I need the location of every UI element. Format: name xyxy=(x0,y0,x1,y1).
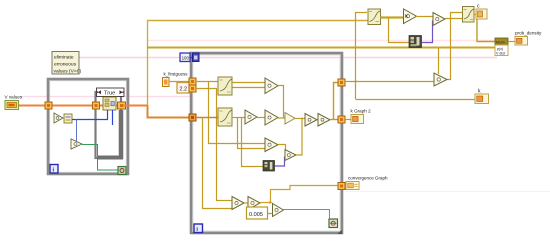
tunnel on case/loop right border xyxy=(118,102,126,109)
violet wire mean to divide xyxy=(275,157,285,167)
V wire into formulaB xyxy=(196,117,218,119)
wire formula2 to c xyxy=(474,14,477,16)
top right formula node 1 xyxy=(368,9,381,25)
triangle bottom sub xyxy=(232,197,244,210)
comment label eliminate erroneous values xyxy=(52,52,81,75)
svg-text:2.2: 2.2 xyxy=(180,87,188,93)
wire V values to left loop xyxy=(17,105,48,107)
svg-text:100: 100 xyxy=(182,56,190,61)
svg-text:convergence Graph: convergence Graph xyxy=(348,176,388,181)
array size node xyxy=(64,114,72,123)
svg-text:values (V>0): values (V>0) xyxy=(54,69,82,75)
blue link xyxy=(190,57,193,59)
svg-text:erroneous: erroneous xyxy=(54,62,77,68)
k_firstguess control xyxy=(163,72,189,87)
tunnel V on big loop left border xyxy=(189,114,196,121)
tunnel k1 on big loop left border xyxy=(189,78,196,85)
wire 0.005 to less triangle xyxy=(268,213,274,215)
wire xyxy=(416,16,433,18)
wire pdf to prob_density xyxy=(508,41,515,43)
thick out of formula1 xyxy=(381,16,405,18)
constant 2.2 xyxy=(177,83,190,94)
iteration terminal left loop xyxy=(50,165,58,174)
V vertical feeder down xyxy=(202,117,204,208)
wire to convergence tunnel xyxy=(271,186,339,203)
feeder from long wire down to triangle3 xyxy=(438,48,440,74)
wire exit over border xyxy=(123,105,130,107)
tunnel k graph xyxy=(338,116,345,123)
svg-text:prob_density: prob_density xyxy=(515,31,542,36)
blue wire array size to node xyxy=(72,110,108,120)
V values control xyxy=(5,95,23,110)
big while loop xyxy=(191,53,342,233)
left while loop xyxy=(48,79,128,174)
blue stub in case xyxy=(112,110,114,125)
svg-text:eliminate: eliminate xyxy=(54,55,74,61)
riser from k junction to icon1 input xyxy=(356,12,368,14)
wire long y48 to PDF block xyxy=(147,47,496,49)
k2 vertical feeder down xyxy=(216,88,218,200)
wire through left loop xyxy=(52,105,148,107)
triangle less-than xyxy=(273,204,284,217)
comparison triangle left xyxy=(54,113,63,123)
wire xyxy=(278,117,285,119)
compare triangle bottom xyxy=(71,139,82,149)
wire out with junction xyxy=(260,202,272,204)
svg-text:k Graph 2: k Graph 2 xyxy=(351,109,372,114)
violet wire to triangle2 xyxy=(422,21,433,43)
indicator k Graph 2 xyxy=(351,109,372,124)
dark node mean top xyxy=(409,36,422,48)
tunnel k out xyxy=(338,79,345,86)
triangle div k xyxy=(434,73,447,86)
case selector label True xyxy=(97,88,125,97)
wire formulaA second out xyxy=(232,87,265,89)
normal pdf block xyxy=(495,38,508,56)
triangle row2 d xyxy=(318,114,330,127)
triangle bottom abs xyxy=(248,197,260,210)
wire tunnel to k graph 2 xyxy=(345,119,351,121)
N constant blue box xyxy=(180,53,190,62)
tunnel on case left border xyxy=(93,102,100,109)
case structure (inner) xyxy=(96,92,124,159)
wire formulaA out xyxy=(232,82,265,84)
triangle row2 small xyxy=(285,113,295,125)
wire k_firstguess to tunnel xyxy=(169,81,193,83)
blue drop to compare triangle xyxy=(76,119,78,141)
iteration terminal big loop xyxy=(194,224,203,233)
wire formulaB out xyxy=(232,117,245,119)
wire V down-leg into big loop xyxy=(148,105,194,118)
wire k2 to feeder xyxy=(196,88,217,90)
feeder to subtract triangle mid xyxy=(237,117,239,148)
svg-text:V dist: V dist xyxy=(496,52,505,56)
triangle mult row1 xyxy=(265,78,278,94)
indicator k xyxy=(475,89,489,104)
triangle row2 a xyxy=(245,110,257,124)
k1 vertical feeder down xyxy=(208,81,210,143)
triangle subtract mid xyxy=(265,138,278,152)
N terminal on loop xyxy=(193,53,200,62)
svg-text:0.005: 0.005 xyxy=(249,212,263,218)
wire into t4 xyxy=(216,200,232,202)
wire row1 out down to row2 xyxy=(278,86,284,118)
horizontal into triangleM xyxy=(208,143,265,145)
wire riser to top xyxy=(147,20,149,106)
loop condition terminal big loop xyxy=(329,219,338,228)
svg-text:p(x): p(x) xyxy=(497,47,503,51)
triangle divide N xyxy=(285,150,296,161)
constant 0.005 xyxy=(247,207,268,219)
green wire to condition xyxy=(283,210,330,220)
wire M out to N xyxy=(278,145,286,153)
indicator c xyxy=(476,4,487,20)
riser to k out tunnel xyxy=(334,83,339,120)
wire k junction to triangle3 xyxy=(345,81,434,83)
wire k1 to formulaA xyxy=(196,81,218,83)
triangle top right 2 xyxy=(433,13,445,26)
triangle row2 c xyxy=(305,114,317,127)
tunnel k2 on big loop left border xyxy=(189,85,196,92)
wire to formula2 xyxy=(445,18,463,20)
svg-text:Norm: Norm xyxy=(496,41,505,45)
svg-text:V values: V values xyxy=(5,95,23,100)
tunnel convergence xyxy=(338,183,345,190)
wire tunnel to convergence graph xyxy=(345,185,348,187)
wire with junction xyxy=(295,118,305,120)
triangle top right 1 xyxy=(404,9,417,24)
wire xyxy=(257,117,265,119)
formula node A xyxy=(218,77,232,95)
feeder to mean node xyxy=(242,117,264,167)
svg-text:True: True xyxy=(104,91,115,97)
wire xyxy=(244,202,248,204)
triangle row2 b xyxy=(265,110,278,125)
array node inside case xyxy=(103,97,116,110)
mean node dark icon xyxy=(263,161,275,172)
faint jpeg chroma ghost lines xyxy=(148,40,495,42)
wire 2.2 to tunnel xyxy=(190,88,193,90)
wire row2 to k tunnels xyxy=(330,119,338,121)
formula node B xyxy=(218,108,232,126)
wire k to indicator xyxy=(356,99,476,101)
loop condition terminal left loop xyxy=(118,167,126,175)
indicator convergence Graph xyxy=(346,176,388,190)
corner resize glyph xyxy=(337,230,342,234)
formula node 2 xyxy=(463,7,475,23)
branch down to dark node xyxy=(389,18,410,43)
wire N out riser to row2 xyxy=(296,119,302,156)
wire formula2 down leg to pdf block xyxy=(477,19,495,42)
green boolean wire to loop condition xyxy=(82,145,118,171)
indicator prob_density xyxy=(515,31,542,46)
tunnel on left loop left border xyxy=(45,102,52,109)
svg-text:k_firstguess: k_firstguess xyxy=(164,72,189,77)
wire top y20 to formula icon1 xyxy=(147,20,368,22)
riser from triangle3 to formula2 input xyxy=(446,13,463,80)
